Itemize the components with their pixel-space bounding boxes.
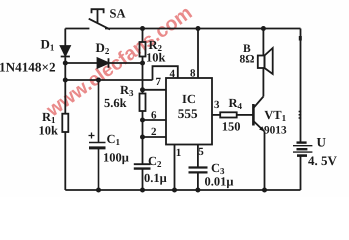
watermark www.elecfans.com: [43, 1, 197, 121]
bottom rail wire: [65, 189, 300, 191]
svg-text:5.6k: 5.6k: [104, 96, 127, 110]
small plate nubs on right column: [299, 112, 302, 119]
C1 plus sign: [89, 133, 95, 139]
node dot pin1 bottom: [172, 188, 177, 193]
svg-text:7: 7: [156, 76, 162, 88]
node dot D1-D2 row: [63, 61, 68, 66]
switch SA: [89, 9, 110, 29]
wire emitter to ground rail: [264, 132, 266, 191]
svg-text:R4: R4: [229, 96, 243, 111]
resistor R3: [140, 94, 146, 112]
wire collector to speaker: [262, 68, 264, 97]
C3 lower wire: [197, 173, 199, 190]
right column wire lower: [300, 157, 302, 191]
wire pin2: [143, 136, 167, 138]
svg-text:C2: C2: [148, 154, 162, 169]
transistor VT1 base bar: [252, 104, 255, 126]
speaker B: [258, 56, 265, 69]
node dot pin8 rail: [196, 26, 201, 31]
svg-text:1N4148×2: 1N4148×2: [0, 59, 56, 74]
svg-text:IC: IC: [182, 92, 196, 106]
left column wire: [64, 29, 66, 191]
node dot C3 bottom: [195, 188, 200, 193]
node dot speaker rail: [261, 26, 266, 31]
wire pin3: [212, 114, 220, 116]
svg-text:555: 555: [178, 106, 198, 121]
transistor emitter with arrow: [253, 121, 264, 132]
svg-text:10k: 10k: [146, 51, 166, 65]
capacitor C2: [134, 163, 151, 165]
transistor collector: [253, 97, 263, 109]
diode D2: [98, 58, 109, 68]
svg-text:150: 150: [222, 120, 241, 134]
wire D2 row: [65, 62, 142, 64]
resistor R2: [140, 42, 146, 57]
node dot pin7 junction: [140, 87, 145, 92]
node dot row81 left: [63, 78, 68, 83]
scan blot on right column: [299, 36, 302, 41]
svg-text:6: 6: [151, 109, 157, 121]
node dot C1 bottom: [96, 188, 101, 193]
node dot pin2: [140, 135, 145, 140]
node dot emitter rail: [262, 188, 267, 193]
svg-text:9013: 9013: [264, 125, 287, 137]
diode D1: [61, 46, 70, 57]
svg-text:1: 1: [176, 147, 182, 159]
svg-text:0.01μ: 0.01μ: [205, 175, 234, 189]
svg-text:2: 2: [151, 126, 157, 138]
svg-text:4. 5V: 4. 5V: [308, 153, 338, 168]
wire pin1: [174, 145, 176, 191]
svg-text:D2: D2: [96, 40, 110, 56]
wire pin4 step: [153, 66, 178, 80]
svg-text:8Ω: 8Ω: [240, 54, 255, 66]
svg-text:3: 3: [214, 99, 220, 111]
wire pin7: [143, 89, 167, 91]
svg-text:100μ: 100μ: [103, 151, 129, 165]
node dot C2 bottom: [140, 188, 145, 193]
right column wire upper: [300, 29, 302, 142]
wire row 81: [65, 79, 152, 81]
wire R4 to base: [237, 114, 253, 116]
C2 lower wire: [142, 169, 144, 190]
node dot pin6: [140, 118, 145, 123]
svg-text:5: 5: [198, 146, 204, 158]
svg-text:10k: 10k: [39, 124, 59, 138]
top rail wire: [65, 28, 300, 30]
R2 wires: [142, 29, 144, 94]
capacitor C3: [189, 166, 208, 168]
svg-text:SA: SA: [110, 7, 126, 21]
svg-text:C1: C1: [107, 132, 121, 147]
wire pin8: [197, 29, 199, 79]
battery U plates: [297, 141, 307, 143]
resistor R1: [62, 114, 68, 132]
R3 lower wire: [142, 111, 144, 164]
op IC 555 box: [166, 78, 212, 145]
capacitor C1: [89, 80, 106, 190]
wire pin5: [197, 145, 199, 168]
node dot C1 top: [96, 78, 101, 83]
svg-text:D1: D1: [41, 37, 55, 53]
wire speaker top: [262, 29, 264, 56]
resistor R4: [220, 112, 237, 117]
svg-text:VT1: VT1: [264, 108, 286, 123]
wire pin6: [143, 119, 167, 121]
node dot R2 D2 row: [140, 61, 145, 66]
svg-text:0.1μ: 0.1μ: [144, 171, 167, 185]
svg-text:U: U: [317, 134, 327, 149]
node dot R2 top rail: [140, 26, 145, 31]
